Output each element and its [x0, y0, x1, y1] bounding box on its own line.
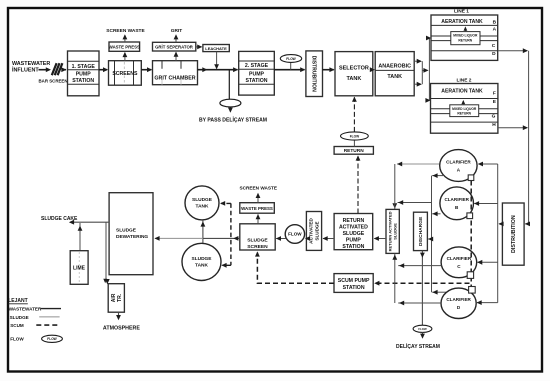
svg-text:DISTRUBITION: DISTRUBITION [511, 215, 517, 253]
wire: pump station to screens [99, 69, 107, 71]
box: SCREENS [109, 61, 142, 85]
svg-text:SCREENS: SCREENS [112, 71, 138, 77]
wire: into clarifier distribution [525, 223, 528, 225]
wire: scum collector (dashed) [470, 181, 472, 287]
wire: scum pump station to sludge screen (dashed) [257, 253, 334, 284]
svg-text:TANK: TANK [195, 263, 209, 269]
svg-text:LIME: LIME [73, 266, 86, 272]
svg-text:FLOW: FLOW [350, 134, 359, 138]
svg-text:SLUDGE: SLUDGE [247, 238, 268, 244]
wire: influent arrow [39, 69, 50, 71]
wire: collector into discharge [428, 238, 431, 240]
wire: inter tank riser [202, 220, 204, 244]
svg-text:CLARIFIER: CLARIFIER [446, 159, 471, 164]
svg-text:PUMP: PUMP [346, 238, 362, 244]
wire: clarifier D upper line to collector [432, 291, 446, 293]
svg-text:ANAEROBIC: ANAEROBIC [378, 63, 411, 69]
wire: sludge screen to waste press [257, 214, 259, 223]
wire: grit separator to leachate [196, 46, 202, 48]
return flow oval [353, 140, 355, 146]
box: 1. STAGE PUMP STATION [68, 51, 100, 96]
svg-text:C: C [492, 43, 496, 49]
svg-text:STATION: STATION [72, 78, 94, 84]
clarifier B [440, 187, 474, 220]
svg-text:1. STAGE: 1. STAGE [72, 64, 96, 70]
svg-text:SCUM PUMP: SCUM PUMP [338, 278, 370, 284]
svg-text:CLARIFIER: CLARIFIER [444, 197, 469, 202]
wire: activated sludge box to flow meter [305, 236, 310, 241]
svg-text:SCUM: SCUM [10, 323, 24, 328]
wire: RAS pump station to activated sludge box [323, 238, 334, 240]
sludge tank (lower) [182, 243, 221, 280]
wire: clarifier B sludge to collector [432, 213, 440, 215]
svg-text:FLOW: FLOW [288, 232, 302, 237]
svg-text:FLOW: FLOW [47, 337, 56, 341]
wire: grit chamber to grit separator [175, 52, 177, 60]
svg-text:DELİÇAY STREAM: DELİÇAY STREAM [396, 343, 440, 350]
box: LEACHATE [203, 45, 229, 52]
svg-text:SLUDGE: SLUDGE [10, 315, 29, 320]
svg-text:WASTEWATER: WASTEWATER [9, 307, 42, 312]
svg-text:LINE 2: LINE 2 [457, 78, 472, 84]
box: RETURN ACTIVATED SLUDGE [386, 209, 399, 253]
box: DISCHARGE [414, 212, 428, 250]
svg-text:A: A [493, 27, 497, 33]
box: MIXED LIQUOR RETURN (line 2) [450, 105, 479, 117]
svg-text:AERATION TANK: AERATION TANK [441, 88, 483, 94]
svg-text:DISCHARGE: DISCHARGE [418, 216, 424, 246]
svg-text:TANK: TANK [346, 76, 361, 82]
wire: outfall arrow [422, 332, 424, 337]
svg-text:TANK: TANK [196, 204, 210, 210]
box: RETURN [334, 147, 373, 155]
box: LIME [70, 251, 88, 285]
svg-text:WASTE PRESS: WASTE PRESS [241, 206, 273, 211]
wire: main line grit chamber to 2. stage [198, 69, 238, 71]
box: AIR TR [108, 284, 124, 313]
svg-text:LEJANT: LEJANT [8, 298, 27, 304]
box: SELECTOR TANK [335, 52, 373, 96]
svg-text:RETURN: RETURN [457, 112, 471, 116]
scum takeoff square A [468, 175, 474, 181]
wire: aeration line2 outlet [498, 127, 527, 129]
svg-text:FLOW: FLOW [418, 327, 427, 331]
bar screen symbol [52, 63, 57, 75]
svg-text:RETURN: RETURN [343, 218, 365, 224]
wire: collector to RAS box [398, 202, 432, 204]
box: 2. STAGE PUMP STATION [239, 51, 275, 95]
svg-text:D: D [492, 51, 496, 57]
by-pass flow ellipse [220, 99, 241, 107]
svg-text:STATION: STATION [343, 285, 365, 291]
box: WASTE PRESS (sludge) [240, 203, 274, 214]
wire: feed clarifier C [478, 261, 498, 263]
wire: screens to grit chamber [141, 69, 151, 71]
box: SLUDGE SCREEN [240, 224, 275, 250]
svg-text:RETURN: RETURN [344, 148, 365, 154]
wire: scum line to scum pump station (dashed) [377, 282, 470, 284]
box: ANAEROBIC TANK [375, 52, 414, 96]
svg-text:GRIT CHAMBER: GRIT CHAMBER [154, 75, 195, 81]
wire: screens to waste press [124, 53, 126, 61]
wire: sludge screen to sludge tanks junction [203, 237, 240, 239]
svg-text:RETURN: RETURN [458, 39, 472, 43]
wire: selector to anaerobic [370, 67, 375, 72]
wire: recycle to sludge tanks (dashed) [230, 203, 232, 265]
svg-text:CLARIFIER: CLARIFIER [447, 256, 472, 261]
flow meter circle (activated sludge) [285, 225, 304, 244]
svg-text:H: H [492, 122, 496, 128]
wire: feed clarifier B [474, 203, 497, 205]
wire: bar screen to pump station [63, 69, 66, 71]
box: MIXED LIQUOR RETURN (line 1) [451, 32, 480, 45]
svg-text:PUMP: PUMP [249, 72, 265, 78]
wire: RAS box lower riser [394, 253, 396, 303]
svg-text:G: G [492, 113, 496, 119]
wire: dewatering to air treatment [105, 222, 107, 281]
wire: flow meter to sludge screen [276, 238, 286, 240]
wire: feed clarifier A [478, 163, 497, 165]
box: GRIT CHAMBER [153, 61, 198, 85]
wire: sludge collector line [431, 176, 433, 293]
flow meter oval (top) [290, 62, 292, 69]
svg-text:LEACHATE: LEACHATE [205, 46, 227, 51]
svg-text:SLUDGE: SLUDGE [315, 221, 320, 240]
svg-text:DEWATERING: DEWATERING [116, 234, 148, 240]
wire: return riser to return box [357, 156, 359, 213]
svg-text:GRIT: GRIT [171, 28, 183, 34]
wire: by-pass branch down [228, 70, 230, 100]
svg-text:STATION: STATION [246, 78, 268, 84]
wire: mixed liquor return arrow (line 2) [462, 101, 464, 105]
clarifier A [440, 150, 477, 182]
svg-text:PUMP: PUMP [76, 71, 92, 77]
wire: distribution outlet to clarifier feed line [499, 223, 502, 225]
svg-text:MIXED LIQUOR: MIXED LIQUOR [452, 107, 477, 111]
svg-text:SCREEN: SCREEN [247, 244, 268, 250]
svg-text:TR.: TR. [117, 293, 123, 302]
svg-text:DISTRUBITION: DISTRUBITION [310, 56, 316, 93]
wire: aeration line1 outlet [498, 50, 528, 52]
svg-text:STATION: STATION [342, 244, 364, 250]
svg-text:BAR SCREEN: BAR SCREEN [38, 79, 67, 84]
scum takeoff square B [467, 213, 473, 219]
wire: clarifier feed riser [497, 164, 499, 303]
svg-text:FLOW: FLOW [10, 336, 24, 341]
wire: feed clarifier D [477, 302, 498, 304]
outfall flow oval [413, 325, 432, 332]
svg-text:SLUDGE: SLUDGE [393, 223, 398, 240]
box: DISTRIBUTION (clarifiers) [502, 203, 524, 265]
scum takeoff square D [469, 287, 476, 294]
box: GRIT SEPERATOR [153, 42, 196, 51]
svg-text:WASTE PRESS: WASTE PRESS [109, 45, 140, 50]
svg-text:TANK: TANK [387, 74, 402, 80]
svg-text:BY PASS DELİÇAY STREAM: BY PASS DELİÇAY STREAM [199, 116, 267, 123]
wire: grit separator to grit [175, 35, 177, 42]
wire: leachate down to main line [216, 52, 218, 69]
svg-text:SLUDGE: SLUDGE [116, 228, 137, 234]
box: DISTRIBUTION (top) [306, 51, 323, 97]
box: RETURN ACTIVATED SLUDGE PUMP STATION [334, 214, 373, 250]
svg-text:ACTIVATED: ACTIVATED [339, 224, 368, 230]
svg-text:B: B [493, 19, 497, 25]
svg-text:MIXED LIQUOR: MIXED LIQUOR [453, 34, 478, 38]
wire: clarifier A RAS line [397, 163, 440, 165]
wire: RAS box to RAS pump station [374, 238, 386, 240]
svg-text:F: F [493, 90, 496, 96]
box: AERATION TANK line 1 [431, 15, 498, 60]
svg-text:LINE 1: LINE 1 [454, 9, 469, 15]
svg-text:SCREEN WASTE: SCREEN WASTE [240, 185, 278, 190]
svg-text:SLUDGE: SLUDGE [192, 256, 213, 262]
wire: mixed liquor return arrow (line 1) [464, 28, 466, 32]
svg-text:2. STAGE: 2. STAGE [245, 63, 269, 69]
svg-text:GRİT SEPERATOR: GRİT SEPERATOR [155, 44, 194, 49]
wire: lime feed [79, 223, 81, 251]
svg-text:SLUDGE: SLUDGE [192, 197, 213, 203]
scum takeoff square C [467, 272, 473, 279]
wire: distribution to selector tank [323, 69, 334, 71]
svg-text:CLARIFIER: CLARIFIER [446, 297, 471, 302]
svg-text:SLUDGE CAKE: SLUDGE CAKE [41, 216, 78, 222]
svg-text:FLOW: FLOW [286, 57, 295, 61]
svg-text:ATMOSPHERE: ATMOSPHERE [103, 325, 140, 331]
wire: 2. stage to distribution [274, 69, 304, 71]
wire: anaerobic outlet branches [414, 60, 421, 62]
clarifier C [441, 247, 477, 278]
svg-text:SLUDGE: SLUDGE [343, 231, 365, 237]
wire: clarifier A sludge to collector [432, 175, 443, 177]
svg-text:WASTEWATER: WASTEWATER [12, 61, 50, 67]
wire: air treatment to atmosphere [118, 312, 120, 319]
wire: waste press to screen waste [124, 35, 126, 42]
sludge tank (upper) [185, 186, 219, 220]
wire: clarifier C sludge line [398, 265, 441, 267]
wire: return to selector tank [353, 97, 355, 132]
svg-text:İNFLUENT: İNFLUENT [12, 66, 39, 73]
svg-text:AERATION TANK: AERATION TANK [441, 19, 483, 25]
wire: discharge outfall [421, 251, 423, 326]
wire: clarifier D sludge line [398, 302, 441, 304]
clarifier D [441, 288, 476, 318]
svg-text:SCREEN WASTE: SCREEN WASTE [106, 28, 145, 34]
wire: sludge cake line [70, 221, 109, 223]
wire: waste press to screen waste (sludge) [257, 194, 259, 203]
box: AERATION TANK line 2 [431, 84, 498, 134]
wire: aeration feed riser [428, 38, 430, 100]
box: WASTE PRESS (screens) [109, 42, 140, 51]
wire: by-pass outfall arrow [229, 107, 231, 112]
box: SLUDGE DEWATERING [109, 193, 153, 275]
box: SCUM PUMP STATION [334, 274, 373, 293]
box: ACTIVATED SLUDGE [306, 212, 321, 251]
svg-text:SELECTOR: SELECTOR [339, 65, 369, 71]
wire: sludge to dewatering [155, 237, 203, 239]
